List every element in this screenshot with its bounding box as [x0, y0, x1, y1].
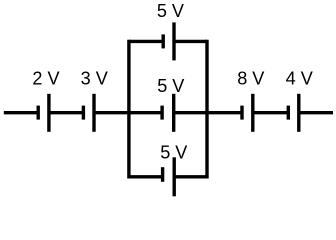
- svg-text:3 V: 3 V: [81, 68, 108, 88]
- svg-text:5 V: 5 V: [160, 143, 187, 163]
- svg-text:5 V: 5 V: [157, 76, 184, 96]
- svg-text:5 V: 5 V: [157, 1, 184, 21]
- svg-text:2 V: 2 V: [32, 68, 59, 88]
- svg-text:8 V: 8 V: [237, 68, 264, 88]
- svg-text:4 V: 4 V: [286, 68, 313, 88]
